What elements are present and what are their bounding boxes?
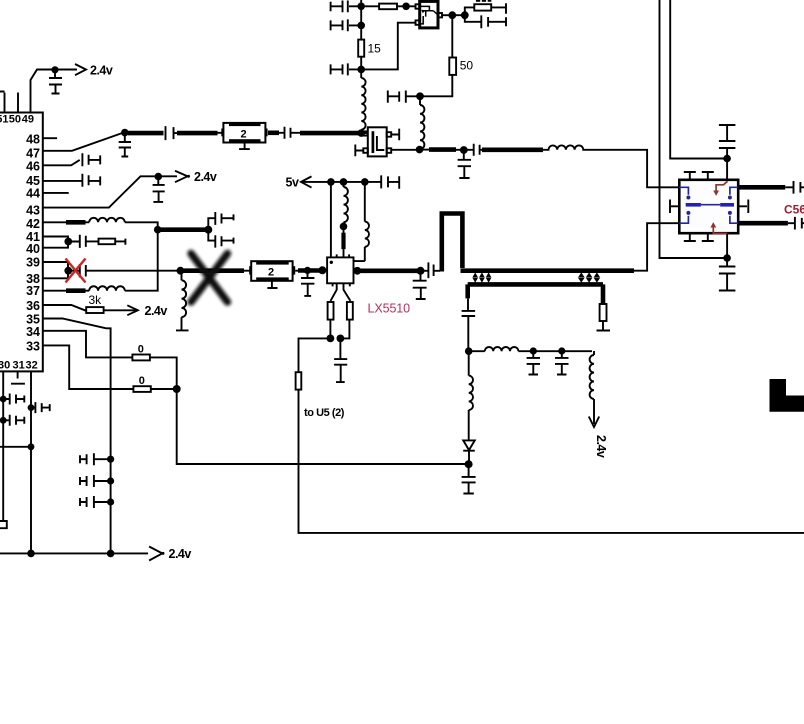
svg-text:42: 42	[26, 217, 40, 231]
svg-text:47: 47	[26, 146, 40, 160]
svg-text:33: 33	[26, 340, 40, 354]
svg-text:36: 36	[26, 299, 40, 313]
svg-text:30: 30	[0, 360, 10, 372]
svg-text:43: 43	[26, 204, 40, 218]
svg-text:3k: 3k	[89, 293, 103, 307]
svg-text:46: 46	[26, 160, 40, 174]
svg-text:C56: C56	[784, 203, 804, 217]
svg-text:50: 50	[460, 58, 474, 72]
svg-text:2: 2	[268, 267, 274, 279]
svg-text:2.4v: 2.4v	[90, 63, 113, 77]
svg-text:50: 50	[9, 114, 21, 126]
svg-text:0: 0	[139, 375, 145, 387]
svg-text:34: 34	[26, 325, 40, 339]
svg-text:39: 39	[26, 256, 40, 270]
svg-text:2.4v: 2.4v	[594, 435, 608, 458]
svg-text:2: 2	[241, 129, 247, 141]
svg-text:0: 0	[138, 343, 144, 355]
svg-text:32: 32	[26, 360, 38, 372]
svg-text:2.4v: 2.4v	[145, 304, 168, 318]
svg-text:48: 48	[26, 132, 40, 146]
svg-text:40: 40	[26, 242, 40, 256]
svg-text:2.4v: 2.4v	[194, 170, 217, 184]
svg-text:15: 15	[368, 42, 382, 56]
svg-text:51: 51	[0, 114, 9, 126]
svg-text:37: 37	[26, 284, 40, 298]
svg-text:44: 44	[26, 187, 40, 201]
svg-text:31: 31	[13, 360, 25, 372]
svg-text:LX5510: LX5510	[368, 302, 411, 316]
svg-text:5v: 5v	[286, 176, 299, 190]
svg-text:2.4v: 2.4v	[169, 547, 192, 561]
svg-text:to U5 (2): to U5 (2)	[304, 407, 345, 419]
svg-text:49: 49	[22, 114, 34, 126]
